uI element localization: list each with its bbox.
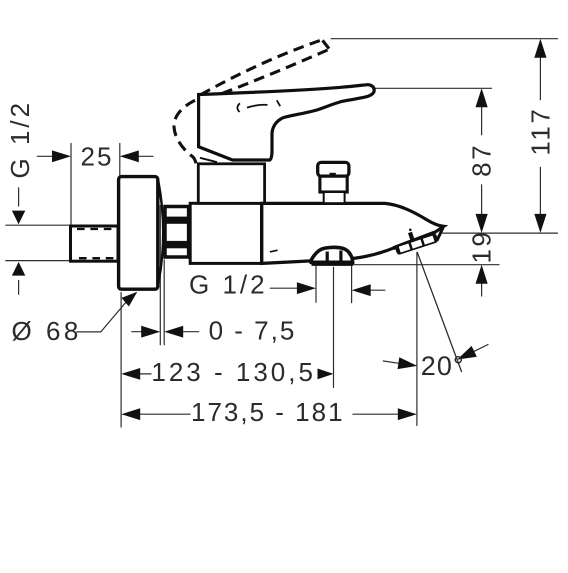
wire dim 19 tail <box>481 283 483 296</box>
wire ext line x333.5 (outlet center) <box>333 267 335 387</box>
dashed raised handle top edge <box>201 40 323 95</box>
arrow 173.5 left <box>121 408 140 420</box>
arrow 87 down <box>476 214 488 233</box>
wire ext line y233.1 (87/117 bottom) <box>442 232 557 234</box>
wire dim 117 vertical <box>539 58 541 100</box>
svg-text:Ø 68: Ø 68 <box>12 316 82 346</box>
arrow 173.5 right <box>398 408 417 420</box>
handle base seam line <box>200 158 217 162</box>
wire 20deg leader left tail <box>383 361 399 363</box>
wire ext line y38.7 (117 top) <box>331 38 558 40</box>
arrow 25 right <box>120 150 139 162</box>
dashed raised handle rear pivot <box>174 100 197 167</box>
arrow 123 right <box>318 369 334 380</box>
wire ext line y264.7 (19 bottom) <box>352 264 499 266</box>
wire ext line y88.3 (87 top) <box>372 87 492 89</box>
flange bulge <box>158 181 163 285</box>
knurled nut <box>165 207 189 258</box>
wire ext line x416.9 (spout tip) <box>416 252 418 425</box>
svg-text:117: 117 <box>526 107 556 156</box>
outlet bump <box>311 247 353 262</box>
wire ext line x164.2 (0-7.5 right) <box>163 260 165 345</box>
flange escutcheon <box>119 177 158 290</box>
wire dim G1/2 left vertical <box>18 188 20 206</box>
svg-text:20°: 20° <box>421 351 465 381</box>
arrow 117 down <box>534 214 546 233</box>
arrow 20deg left-side <box>398 357 418 369</box>
wire ext line y225 (stub top) <box>6 224 74 226</box>
wire dim 123-130.5 tails <box>140 373 152 375</box>
wire dim 87 vertical <box>481 107 483 135</box>
svg-text:87: 87 <box>466 143 496 177</box>
svg-text:19: 19 <box>466 230 496 264</box>
wire ext line x71 (25 left) <box>70 144 72 226</box>
wire 20deg diagonal <box>417 252 461 371</box>
dashed raised handle lower edge <box>220 50 328 94</box>
arrow G1/2-left down <box>12 211 25 225</box>
wire ext line x121.1 (wall ref) <box>120 293 122 427</box>
wire ext line y260.6 (stub bottom) <box>6 260 70 262</box>
body bottom tick <box>270 250 278 252</box>
dashed raised handle tip <box>323 40 330 48</box>
arrow dia68 leader <box>122 292 138 307</box>
arrow G1/2-mid right-pointing <box>297 282 316 294</box>
wire ext line x316 (G1/2 mid left) <box>315 266 317 302</box>
svg-text:0 - 7,5: 0 - 7,5 <box>209 315 297 345</box>
svg-text:25: 25 <box>81 141 114 171</box>
wire ext line x160.3 (0-7.5 left) <box>159 206 161 345</box>
diverter knob middle <box>320 176 347 192</box>
arrow 0-7.5 left-pointing <box>164 326 183 338</box>
wire ext line x119.8 (25 right) <box>119 144 121 177</box>
wire 20deg leader right tail <box>474 345 488 352</box>
arrow 123 left <box>121 368 140 380</box>
spout end piece (aerator with 3 slots) <box>392 225 439 255</box>
spout end dot <box>409 229 412 232</box>
pipe stub G1/2 <box>71 226 119 261</box>
wire dim 173.5-181 tails <box>140 413 191 415</box>
arrow 117 up <box>534 39 546 58</box>
arrow G1/2-mid left-pointing <box>352 284 371 296</box>
cartridge cap <box>198 164 264 204</box>
arrow 20deg right-side <box>457 346 477 360</box>
arrow 0-7.5 right-pointing <box>141 326 160 338</box>
svg-text:173,5 - 181: 173,5 - 181 <box>191 397 345 427</box>
arrow G1/2-left up <box>12 262 25 276</box>
pipe stub thread dashes <box>77 228 113 230</box>
spout end face <box>437 227 443 240</box>
diverter knob stem <box>324 192 345 203</box>
wire dim 25 tails <box>37 155 52 157</box>
wire dia68 leader <box>77 331 101 333</box>
svg-text:G 1/2: G 1/2 <box>5 100 35 179</box>
arrow 25 left <box>52 150 71 162</box>
svg-text:G 1/2: G 1/2 <box>189 269 268 299</box>
diverter knob cap <box>318 162 349 176</box>
arrow 19 up <box>476 265 488 284</box>
wire ext line x351.6 (G1/2 mid right) <box>351 265 353 303</box>
valve body <box>190 203 261 263</box>
handle detail tick <box>277 100 280 106</box>
handle lever <box>199 85 375 160</box>
wire dim 0-7.5 tails <box>132 331 142 333</box>
spout <box>262 203 444 263</box>
wire dim G1/2 mid leader <box>270 287 297 289</box>
handle detail line <box>247 105 268 108</box>
handle detail arc <box>237 103 240 112</box>
spout underside band <box>394 233 435 249</box>
svg-text:123 - 130,5: 123 - 130,5 <box>151 357 316 387</box>
arrow 87 up <box>476 88 488 107</box>
